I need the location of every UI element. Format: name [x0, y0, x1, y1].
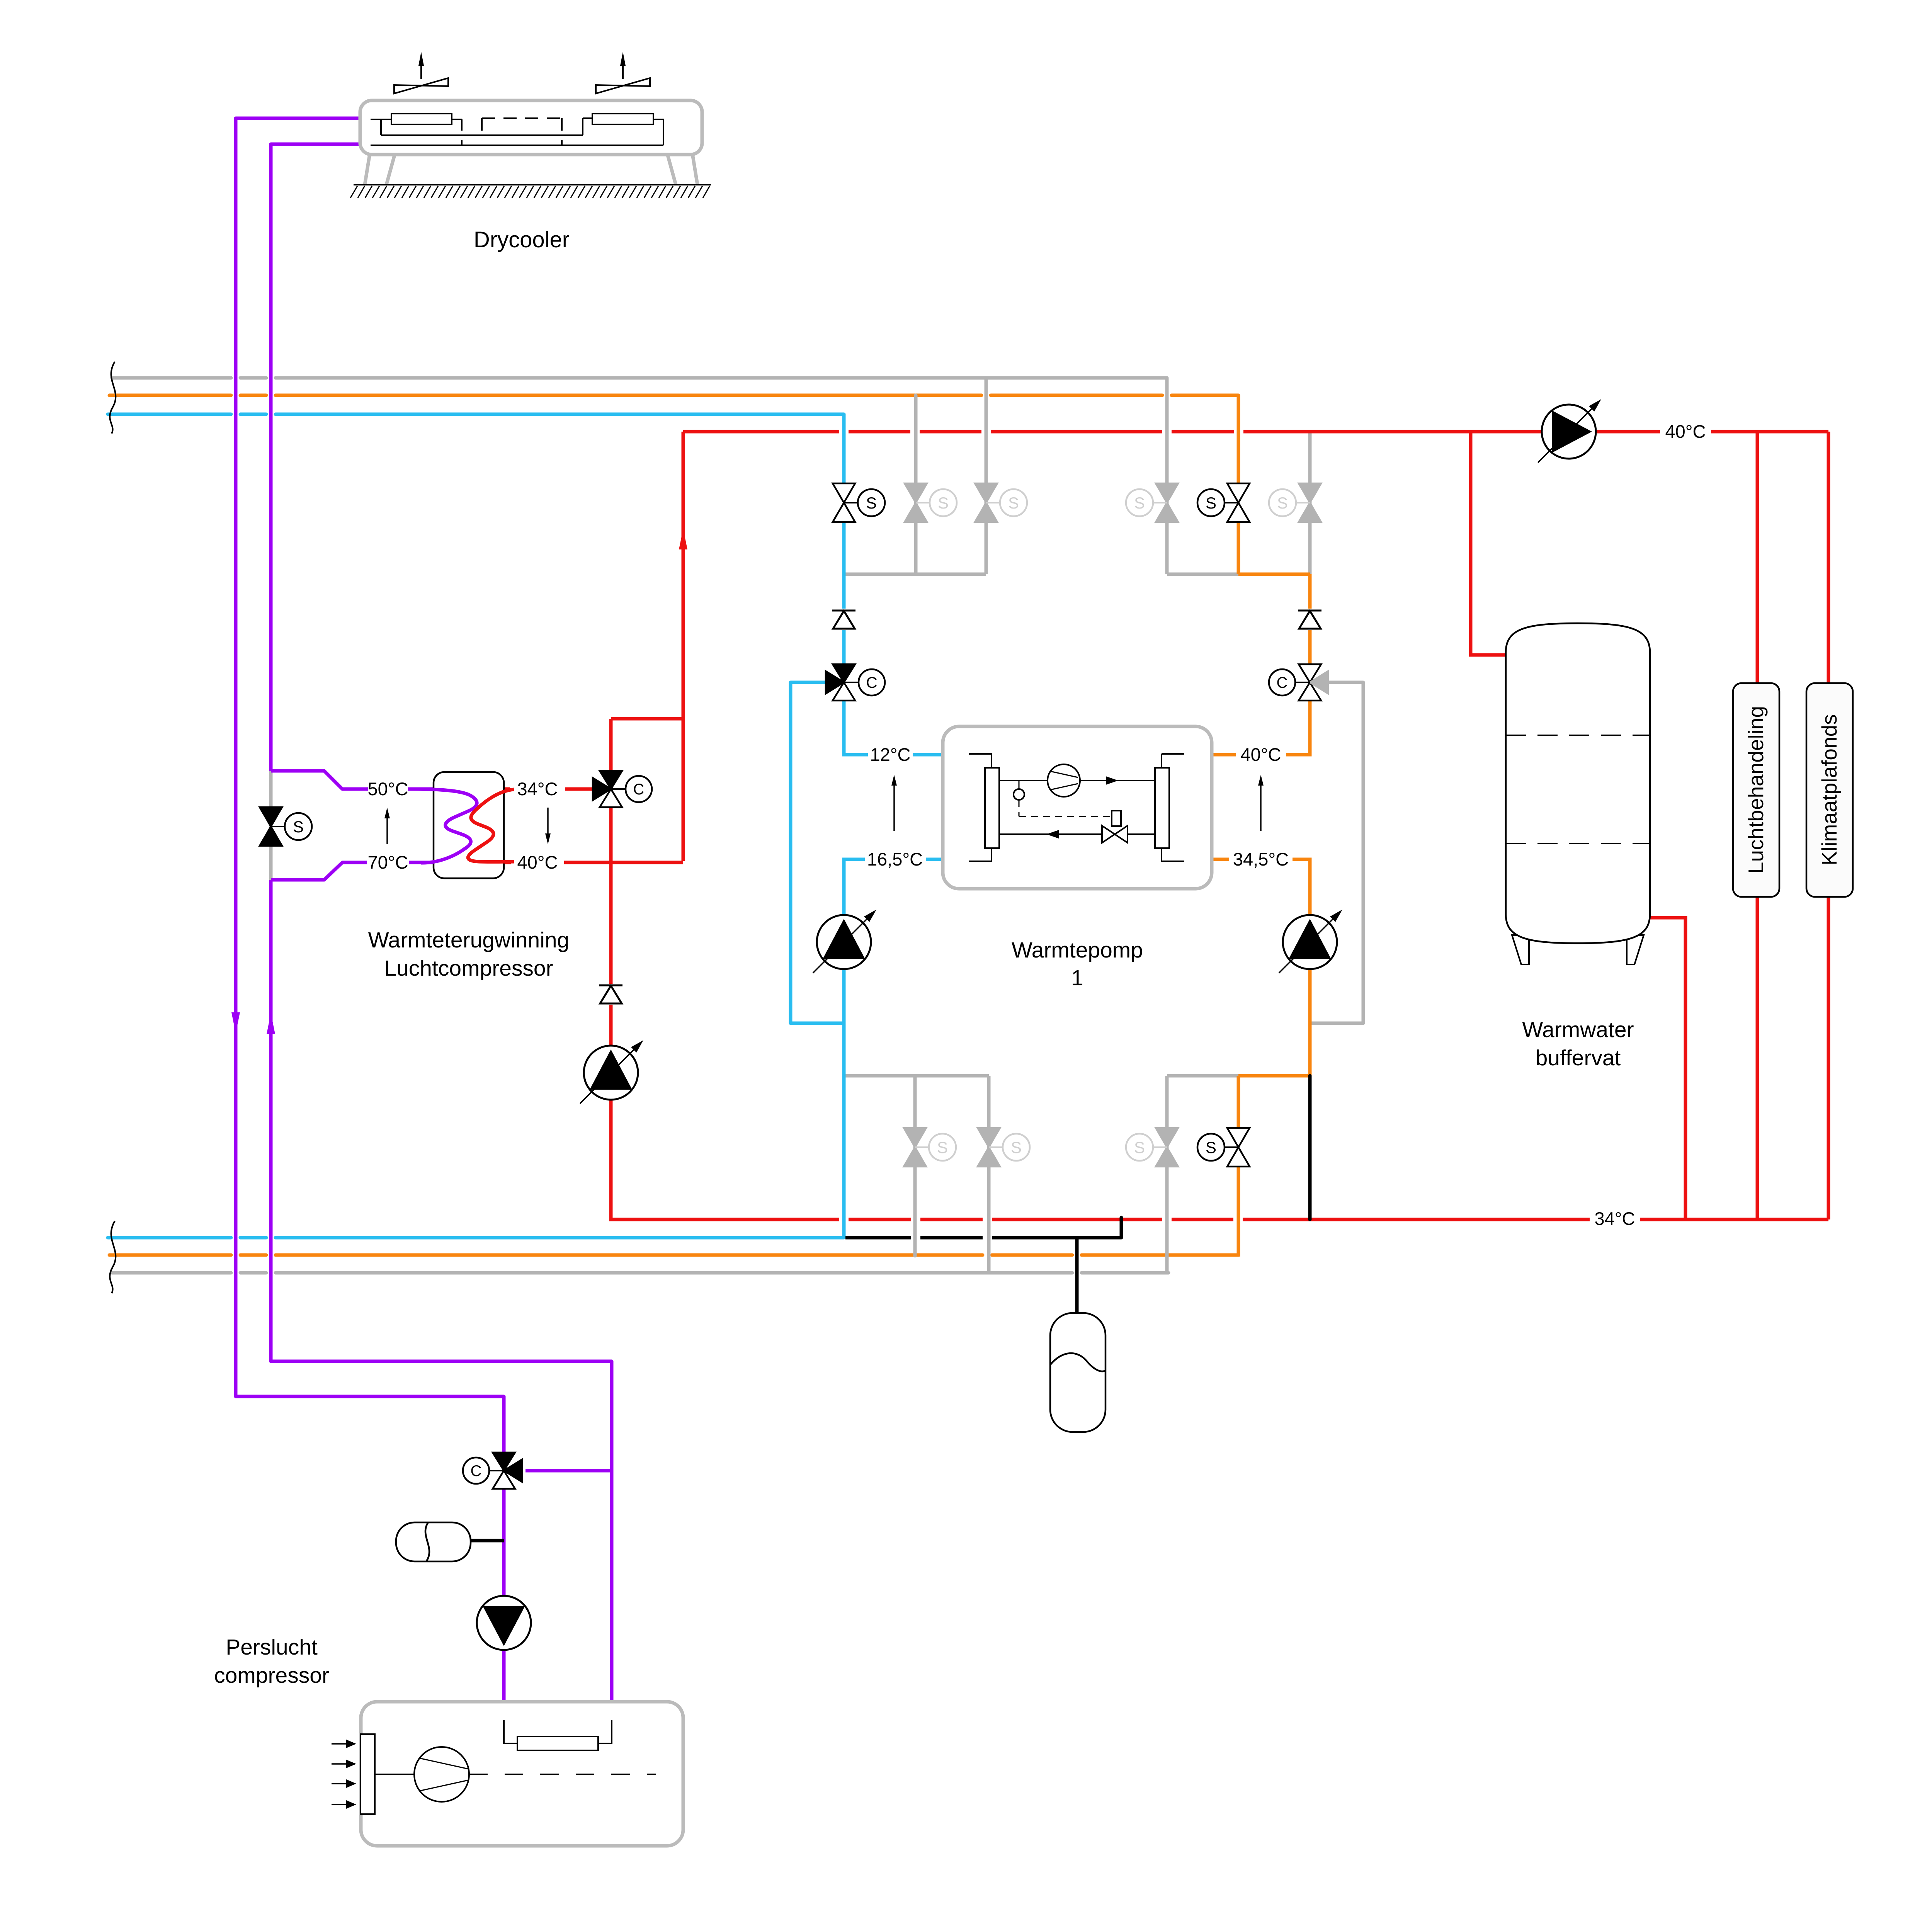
wire gray string A top [914, 395, 918, 574]
wire cyan 16.5C stub [926, 858, 943, 861]
label 50C [367, 779, 408, 799]
heat pump cabinet [943, 726, 1212, 889]
wire purple 50C branch [271, 771, 368, 789]
pump evaporator [813, 910, 876, 973]
label Warmtepomp 1 [1012, 938, 1143, 990]
wire gray string B top [985, 378, 988, 574]
wire cyan bus bottom [108, 1236, 844, 1240]
label 70C [367, 852, 408, 872]
pump compressor cooling [477, 1596, 531, 1650]
label 34C hx [517, 779, 558, 799]
wire orange bus top [109, 394, 1238, 397]
arrow hp left up [891, 775, 897, 831]
klimaatplafonds box [1806, 683, 1853, 897]
label Klimaatplafonds [1817, 714, 1841, 865]
valve C orange [1269, 664, 1328, 701]
svg-text:S: S [1134, 494, 1145, 512]
wire orange 34.5C stub [1212, 858, 1229, 861]
wire orange valve to corner [1286, 701, 1310, 755]
svg-text:1: 1 [1071, 966, 1083, 990]
wire gray connector bottom-right [1167, 1074, 1238, 1078]
label Drycooler [474, 227, 570, 252]
wire black heat meter drop [1308, 1076, 1312, 1219]
wire gray bus bottom [112, 1271, 1168, 1275]
label 40C hp [1240, 744, 1281, 765]
label 16.5C [867, 849, 923, 869]
wire gray connector top-left [844, 573, 986, 576]
wire cyan 12C stub [913, 753, 943, 757]
wire black vessel drop [1075, 1238, 1079, 1314]
svg-text:16,5°C: 16,5°C [867, 849, 923, 869]
wire orange pump down [1308, 969, 1312, 1077]
valve S gray D top [1269, 483, 1321, 522]
valve S compressor loop [260, 807, 312, 846]
svg-text:34,5°C: 34,5°C [1233, 849, 1289, 869]
wire orange string bottom [1237, 1076, 1240, 1257]
svg-text:34°C: 34°C [1594, 1208, 1635, 1229]
wire cyan valve to corner [844, 701, 868, 755]
valve S orange bottom [1197, 1128, 1250, 1167]
valve C red [593, 771, 652, 807]
wire black vessel stub compressor [470, 1539, 504, 1543]
svg-text:S: S [1008, 494, 1019, 512]
svg-text:Luchtcompressor: Luchtcompressor [384, 956, 553, 981]
buffer tank [1506, 623, 1650, 964]
wire orange corner to pump [1293, 859, 1310, 915]
valve S gray C bottom [1126, 1128, 1178, 1167]
svg-text:12°C: 12°C [870, 744, 910, 765]
wire gray connector bottom-left [844, 1074, 989, 1078]
label Warmteterugwinning [368, 928, 570, 981]
svg-text:S: S [293, 818, 304, 836]
wire purple return lower [271, 880, 612, 1703]
wire purple pump section [502, 1489, 506, 1703]
wire red tank return [1650, 918, 1685, 1219]
wire red valve top stub [609, 719, 613, 771]
wire red tank feed [1471, 432, 1506, 655]
svg-text:40°C: 40°C [517, 852, 558, 872]
svg-text:70°C: 70°C [367, 852, 408, 872]
label 40C top [1665, 421, 1706, 442]
wire purple 70C stub [409, 861, 434, 864]
svg-text:Drycooler: Drycooler [474, 227, 570, 252]
pump condenser [1279, 910, 1342, 973]
svg-text:S: S [1134, 1138, 1145, 1156]
heat exchanger red coil [468, 789, 514, 862]
wire red supply riser [682, 432, 685, 861]
valve S cyan top [833, 483, 885, 522]
svg-text:compressor: compressor [214, 1663, 329, 1688]
wire cyan bus top [108, 413, 844, 416]
wire gray string A bottom [913, 1076, 917, 1256]
valve S gray B top [975, 483, 1027, 522]
heat exchanger purple coil [409, 789, 477, 863]
wire black bus continuation [845, 1236, 1121, 1240]
valve S orange top [1197, 483, 1250, 522]
luchtbehandeling box [1733, 683, 1779, 897]
label Luchtbehandeling [1744, 706, 1768, 874]
wire orange string top [1237, 395, 1240, 574]
wire red 40C line [504, 861, 683, 864]
wire gray string C top [1165, 378, 1169, 574]
wire orange drop to valve [1308, 574, 1312, 664]
wire gray string D top [1308, 432, 1312, 574]
wire cyan string top [842, 414, 846, 664]
node bus break top [110, 362, 116, 434]
valve C cyan [826, 664, 885, 701]
svg-text:C: C [633, 781, 645, 798]
wire red bottom line [611, 1218, 1828, 1219]
wire cyan bypass left [791, 682, 844, 1023]
svg-text:Luchtbehandeling: Luchtbehandeling [1744, 706, 1768, 874]
pump heat recovery [580, 1040, 643, 1104]
valve S gray C top [1126, 483, 1178, 522]
wire gray string C bottom [1165, 1076, 1169, 1274]
svg-text:Warmteterugwinning: Warmteterugwinning [368, 928, 570, 952]
wire orange connector top [1238, 573, 1310, 576]
svg-text:34°C: 34°C [517, 779, 558, 799]
wire red luchtbehandeling riser [1756, 432, 1759, 1219]
valve S gray A bottom [904, 1128, 956, 1167]
perslucht compressor internals [332, 1720, 656, 1814]
valve S gray B bottom [978, 1128, 1030, 1167]
wire red klimaatplafonds riser [1827, 432, 1830, 1219]
label 34C bottom [1594, 1208, 1635, 1229]
wire orange bus bottom [109, 1253, 1238, 1257]
svg-text:buffervat: buffervat [1536, 1046, 1621, 1070]
valve S gray A top [905, 483, 957, 522]
heat exchanger body [434, 772, 504, 878]
svg-text:C: C [1277, 674, 1288, 691]
check valve cyan [832, 611, 855, 629]
label Warmwater buffervat [1522, 1017, 1634, 1070]
wire gray bypass right [1310, 682, 1363, 1023]
wire purple valve branch [526, 1469, 612, 1473]
svg-text:40°C: 40°C [1240, 744, 1281, 765]
flow arrow purple up [267, 1022, 275, 1034]
svg-text:Warmtepomp: Warmtepomp [1012, 938, 1143, 963]
svg-text:S: S [1206, 494, 1216, 512]
drycooler coils [371, 114, 663, 145]
wire red pump drop [609, 807, 613, 1219]
svg-text:50°C: 50°C [367, 779, 408, 799]
expansion vessel [1050, 1313, 1105, 1432]
compressor expansion vessel [396, 1522, 471, 1561]
svg-text:S: S [866, 494, 877, 512]
wire gray supply bus top [112, 376, 1167, 380]
wire purple drycooler return upper [271, 144, 360, 771]
wire red top line [683, 430, 1828, 434]
svg-text:S: S [1206, 1138, 1216, 1156]
check valve red [599, 985, 622, 1003]
wire red riser tee [611, 717, 683, 721]
svg-text:Warmwater: Warmwater [1522, 1017, 1634, 1042]
svg-text:C: C [866, 674, 878, 691]
svg-text:S: S [1011, 1138, 1022, 1156]
drycooler fan x=1090 [394, 52, 448, 94]
drycooler cabinet [360, 100, 702, 185]
wire cyan pump down to bus [842, 969, 846, 1238]
flow arrow red up [679, 537, 687, 549]
svg-text:C: C [471, 1463, 482, 1480]
wire orange corner bottom [1238, 1074, 1310, 1078]
svg-text:Klimaatplafonds: Klimaatplafonds [1817, 714, 1841, 865]
pump distribution [1538, 399, 1601, 463]
label Perslucht compressor [214, 1635, 329, 1688]
arrow hx right down [545, 808, 551, 844]
wire red 34C line [504, 787, 593, 791]
svg-text:40°C: 40°C [1665, 421, 1706, 442]
wire purple 70C branch [271, 862, 367, 880]
svg-text:Perslucht: Perslucht [226, 1635, 318, 1660]
svg-text:S: S [938, 494, 949, 512]
label 12C [870, 744, 910, 765]
drycooler fan x=1612 [596, 52, 650, 94]
wire purple drycooler supply [236, 118, 504, 1453]
valve C purple [463, 1452, 522, 1489]
wire orange 40C stub [1212, 753, 1236, 757]
arrow hx left up [384, 808, 390, 844]
check valve orange [1298, 611, 1321, 629]
ground line drycooler [350, 185, 711, 198]
wire gray connector top-right [1167, 573, 1238, 576]
label 34.5C [1233, 849, 1289, 869]
heat pump internals [969, 754, 1184, 861]
svg-text:S: S [937, 1138, 948, 1156]
wire cyan corner to pump [844, 859, 865, 915]
wire gray segment compressor loop [269, 771, 273, 880]
perslucht compressor cabinet [361, 1702, 683, 1846]
wire gray string B bottom [987, 1076, 991, 1273]
arrow hp right up [1258, 775, 1264, 831]
wire black tee to red [1120, 1218, 1123, 1238]
wire purple 50C stub [408, 787, 434, 791]
node bus break bottom [110, 1221, 116, 1293]
svg-text:S: S [1277, 494, 1288, 512]
label 40C hx [517, 852, 558, 872]
flow arrow purple down [231, 1012, 240, 1025]
